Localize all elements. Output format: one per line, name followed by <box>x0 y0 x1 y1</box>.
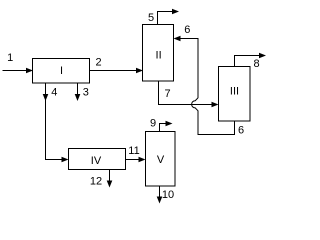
svg-text:9: 9 <box>150 118 156 130</box>
svg-text:12: 12 <box>90 176 102 188</box>
svg-text:III: III <box>230 86 239 98</box>
svg-text:4: 4 <box>51 87 57 99</box>
svg-text:1: 1 <box>7 52 13 64</box>
svg-text:II: II <box>156 50 162 62</box>
svg-text:2: 2 <box>95 57 101 69</box>
svg-text:6: 6 <box>184 24 190 36</box>
svg-text:6: 6 <box>238 125 244 137</box>
svg-text:IV: IV <box>91 155 102 167</box>
svg-text:5: 5 <box>148 12 154 24</box>
svg-text:10: 10 <box>162 189 174 201</box>
svg-text:8: 8 <box>254 58 260 70</box>
svg-text:V: V <box>157 154 165 166</box>
svg-text:3: 3 <box>83 87 89 99</box>
svg-text:I: I <box>60 65 63 77</box>
svg-text:11: 11 <box>128 145 139 157</box>
svg-text:7: 7 <box>164 88 170 100</box>
